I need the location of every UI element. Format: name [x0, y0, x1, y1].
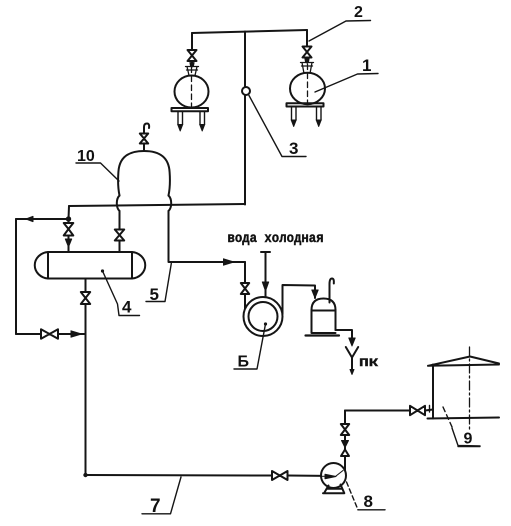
- wire to left loop: [16, 218, 69, 220]
- receiver base: [306, 334, 340, 336]
- arrow down on drain: [349, 338, 355, 346]
- tank T9 bottom: [428, 418, 500, 419]
- arrow down into receiver: [312, 290, 318, 298]
- wire header left corner down: [68, 206, 71, 219]
- flask F1 body: [290, 73, 325, 104]
- wire right inlet branch (bell left wall): [119, 211, 121, 229]
- flask F2 neck: [186, 67, 199, 76]
- node corner dot line7: [83, 473, 87, 477]
- vessel V10 bell dome: [118, 151, 170, 196]
- tank T9 centerline: [469, 347, 471, 430]
- wire right flask riser: [306, 30, 308, 47]
- svg-text:вода холодная: вода холодная: [228, 231, 324, 247]
- condenser C6 inner coil: [249, 302, 278, 331]
- condenser C6 outer coil: [244, 297, 283, 336]
- wire discharge horizontal to tank: [345, 410, 410, 412]
- funnel Y to sewer PK: [346, 347, 358, 371]
- vent hook on receiver: [330, 279, 334, 303]
- leader label 4: [101, 269, 104, 272]
- tank T9 roof: [428, 357, 499, 366]
- flask F2 body: [175, 76, 209, 108]
- wire left inlet branch: [68, 219, 70, 223]
- leader label 10: [76, 163, 119, 181]
- svg-text:10: 10: [77, 148, 95, 165]
- valve on line 7: [272, 471, 288, 480]
- valve before tank: [410, 406, 425, 415]
- flask F1 neck: [301, 63, 314, 74]
- wire line 5 (bell right wall down and right): [169, 211, 246, 262]
- check valve on discharge: [341, 450, 349, 457]
- wire left flask riser: [191, 33, 193, 50]
- arrow down on left inlet: [65, 239, 71, 247]
- pump base: [323, 485, 344, 494]
- valve on left inlet: [64, 223, 74, 236]
- arrow left on that wire: [26, 216, 33, 221]
- svg-text:3: 3: [289, 139, 298, 158]
- vent hook on bell valve: [144, 124, 149, 134]
- leader label 7: [142, 477, 181, 514]
- flask F1 centerline: [307, 64, 309, 103]
- wire line 5 vertical to condenser: [244, 262, 246, 283]
- wire drain down to line7: [85, 304, 87, 475]
- pump P8 body: [321, 463, 346, 488]
- valve on drain: [81, 292, 90, 304]
- arrow right into drain junction: [71, 331, 82, 337]
- tank T9 left wall: [432, 365, 434, 419]
- leader label 6: [264, 322, 267, 325]
- leader label 3: [249, 96, 306, 157]
- svg-text:1: 1: [362, 56, 371, 75]
- valve on right inlet: [115, 230, 124, 241]
- valve on right flask riser: [303, 47, 312, 58]
- bell lip left: [117, 196, 120, 212]
- svg-text:Б: Б: [238, 354, 250, 371]
- flask F2 centerline: [191, 67, 193, 106]
- arrow into pump center: [321, 474, 336, 479]
- bell lip right: [169, 196, 172, 212]
- svg-text:пк: пк: [359, 355, 379, 371]
- wire line 7 bottom: [86, 475, 337, 476]
- wire pump discharge: [344, 456, 346, 471]
- wire cold water inlet: [261, 252, 270, 297]
- wire condenser vapour outlet: [283, 285, 316, 314]
- leader label 5: [146, 264, 171, 302]
- svg-text:8: 8: [364, 492, 373, 511]
- vessel V4 horizontal drum: [48, 252, 132, 279]
- leader label 1: [315, 74, 378, 93]
- wire left loop bottom: [16, 333, 86, 335]
- node 3 junction circle: [242, 87, 250, 95]
- wire left loop vertical: [15, 219, 17, 334]
- leader label 2: [309, 21, 371, 42]
- flask F1 stand: [287, 103, 324, 106]
- svg-text:5: 5: [150, 285, 159, 304]
- valve on left loop bottom: [41, 329, 58, 338]
- wire receiver drain: [336, 330, 353, 338]
- receiver body: [312, 310, 336, 333]
- arrow right on line 5: [224, 259, 234, 265]
- receiver vessel dome: [312, 299, 336, 311]
- arrow down on discharge: [342, 441, 349, 448]
- arrow down on water inlet: [262, 282, 268, 291]
- wire top header between flasks: [192, 30, 307, 33]
- leader label 8: [347, 482, 359, 510]
- wire central vertical from header down: [244, 32, 246, 205]
- flask F2 stand: [172, 108, 209, 111]
- svg-text:9: 9: [464, 431, 473, 448]
- flange tick at tank inlet: [429, 406, 431, 413]
- svg-text:4: 4: [122, 298, 132, 317]
- svg-text:7: 7: [150, 496, 161, 517]
- valve on condenser feed: [241, 283, 249, 294]
- wire V4 bottom drain: [85, 279, 87, 293]
- valve on discharge: [341, 424, 349, 435]
- svg-text:2: 2: [354, 4, 363, 21]
- valve on left flask riser: [188, 50, 197, 61]
- leader label 9 (dashed): [443, 407, 453, 428]
- wire header under bell: [69, 204, 245, 206]
- valve on bell top: [143, 144, 145, 152]
- node junction dot: [66, 216, 71, 221]
